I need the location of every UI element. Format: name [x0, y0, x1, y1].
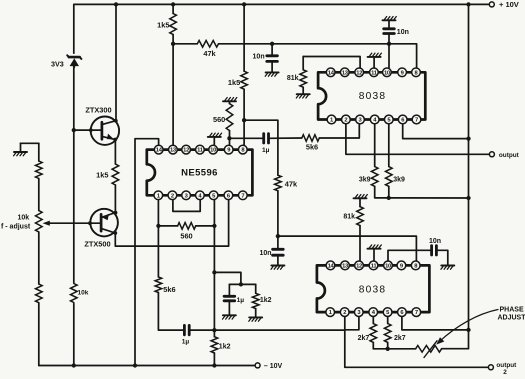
svg-text:1µ: 1µ: [262, 147, 270, 154]
node bottom-rail junction pin14 line: [133, 363, 137, 367]
potentiometer VR1 10k f-adjust: [36, 211, 43, 233]
svg-text:2: 2: [343, 310, 346, 316]
svg-text:47k: 47k: [203, 49, 216, 58]
resistor R6 1k5: [241, 71, 248, 89]
wire pin9 junction to 1u cap: [229, 137, 262, 139]
svg-text:ADJUST: ADJUST: [498, 314, 525, 321]
svg-text:10: 10: [210, 148, 216, 154]
svg-text:1k5: 1k5: [228, 78, 240, 87]
svg-text:560: 560: [213, 115, 225, 124]
node 1u/1k2 top junction: [239, 282, 243, 286]
label 10k R5: [78, 289, 89, 296]
wire junction to 47k vertical: [244, 120, 278, 175]
ground G4 below C1: [265, 72, 278, 76]
node NE5596 pin9 junction: [227, 136, 231, 140]
wire 2k7 junction to pot: [373, 348, 415, 350]
ground G2 above 560: [223, 98, 237, 102]
wire NE5596 pin1 down: [157, 200, 159, 277]
label 5k6 R11: [163, 285, 175, 294]
label PHASE ADJUST leader: [436, 310, 498, 345]
svg-text:81k: 81k: [343, 214, 355, 221]
resistor R19 2k7: [384, 317, 391, 349]
wire elbow to 1u/1k2 pair: [214, 272, 241, 284]
svg-text:ZTX500: ZTX500: [84, 239, 110, 248]
IC U2 8038 (top): [318, 68, 425, 124]
label f-adjust: [1, 224, 31, 231]
node top-rail junction at 1k5 (pin8) line: [242, 2, 246, 6]
label 1u C4: [182, 338, 190, 345]
ground G1 top-left: [14, 143, 27, 156]
svg-text:PHASE: PHASE: [500, 306, 524, 313]
resistor R8 560: [226, 101, 233, 145]
node 3k9/rail junction: [466, 196, 470, 200]
svg-text:10k: 10k: [78, 289, 89, 296]
svg-text:10n: 10n: [429, 238, 441, 245]
label 1u C2: [262, 147, 270, 154]
wire 8038-2 pin6 to rail: [402, 317, 469, 330]
label 47k R2: [203, 49, 216, 58]
label ZTX500: [84, 239, 110, 248]
label ZTX300: [85, 105, 111, 114]
label 560 R8: [213, 115, 225, 124]
node pin5/560 junction: [212, 224, 216, 228]
resistor R11 5k6: [155, 277, 162, 293]
wire ZTX500 collector to NE5596 pin6: [115, 200, 228, 246]
svg-text:47k: 47k: [285, 180, 298, 189]
label 81k R14: [287, 75, 299, 82]
svg-text:10: 10: [384, 70, 390, 76]
ground G6 above 8038-1 pin11: [368, 53, 382, 68]
label 10n C1: [253, 54, 265, 61]
wire 8038-1 pin2 to output: [346, 124, 489, 154]
svg-text:10k: 10k: [18, 215, 30, 222]
wire 8038-1 pin6 to rail: [403, 124, 469, 138]
node top-rail junction at ZTX300 collector line: [114, 2, 118, 6]
wire 8038-2 pin3 corner: [345, 317, 359, 330]
capacitor C2 1u: [264, 134, 269, 143]
node 47k/10n junction: [276, 234, 280, 238]
ground G10 below C3: [271, 266, 284, 270]
node 10n junction on 47k rail: [270, 42, 274, 46]
node pin6/rail junction: [466, 136, 470, 140]
label 10k (pot): [18, 215, 30, 222]
potentiometer VR2 phase adjust: [416, 341, 442, 358]
wire NE5596 pin14 to -10V rail: [135, 139, 159, 366]
wire junction to 47k: [173, 43, 197, 45]
ground G3 above NE5596 pin10: [208, 133, 222, 145]
node ZTX300 base junction: [72, 128, 76, 132]
resistor R2 47k: [197, 41, 218, 48]
label 2k7 R18: [358, 335, 370, 342]
wire wiper arrow to ZTX500 base: [43, 221, 90, 226]
resistor R13 1k2: [252, 284, 259, 316]
wire 47k to 10n junction: [277, 191, 279, 236]
svg-text:2: 2: [503, 369, 507, 374]
resistor R7 47k: [275, 175, 282, 191]
svg-text:1k2: 1k2: [260, 297, 272, 304]
node pin1/560 junction: [156, 224, 160, 228]
resistor R12 1k2: [211, 330, 218, 365]
ground G5 below 81k: [296, 94, 309, 98]
wire 47k rail to 8038-1 pin8: [219, 44, 417, 68]
node 2k7 junction: [386, 347, 390, 351]
resistor R4 (upper section of 10k pot): [36, 161, 43, 179]
capacitor C1 10n: [267, 44, 278, 72]
node 1k5/47k junction: [171, 42, 175, 46]
resistor R15 3k9: [371, 124, 388, 198]
wire 560 left lead: [158, 225, 177, 227]
wire 10n to ground: [438, 250, 448, 265]
svg-text:10n: 10n: [397, 29, 409, 36]
svg-text:– 10V: – 10V: [264, 363, 283, 370]
wire left vertical (zener / ZTX300 base / 10k): [73, 4, 75, 365]
svg-text:2: 2: [171, 193, 174, 199]
wire pair top bar: [229, 283, 255, 285]
svg-text:ZTX300: ZTX300: [85, 105, 111, 114]
svg-text:1k5: 1k5: [96, 171, 108, 180]
transistor Q2 ZTX500: [88, 209, 118, 237]
ground G12 below C5: [223, 315, 236, 319]
svg-text:81k: 81k: [287, 75, 299, 82]
svg-text:8038: 8038: [359, 91, 386, 102]
terminal +10V: [489, 0, 519, 9]
wire 10n node to 8038-2 pin8: [278, 236, 417, 261]
label 560 R10: [180, 232, 192, 241]
label 1k5 R1: [157, 20, 169, 29]
wire 1k5 to ZTX500 emitter: [114, 185, 116, 212]
svg-text:3k9: 3k9: [393, 176, 405, 183]
node top-rail junction at 1k5 (pin13) line: [171, 2, 175, 6]
svg-text:12: 12: [356, 264, 362, 270]
svg-text:NE5596: NE5596: [181, 167, 218, 178]
wire NE5596 pin5 down: [213, 200, 215, 330]
wire top rail down (1k5 pin8 line): [243, 4, 245, 71]
IC U3 8038 (bottom): [317, 261, 430, 316]
wire 1u to 5k6: [270, 137, 302, 139]
resistor R16 3k9: [386, 124, 393, 198]
wire collector line from top rail: [115, 4, 117, 121]
transistor Q1 ZTX300: [74, 117, 119, 145]
label 10n C3: [259, 250, 271, 257]
label 10n C6: [397, 29, 409, 36]
capacitor C7 10n: [432, 246, 437, 255]
ground G7 above C6: [383, 17, 397, 21]
svg-text:3k9: 3k9: [359, 176, 371, 183]
svg-text:1k2: 1k2: [219, 343, 231, 350]
label PHASE ADJUST: [498, 306, 525, 321]
node 1k5/47k-branch junction: [242, 118, 246, 122]
resistor R10 560: [178, 223, 196, 230]
wire 3k9 junction to rail: [389, 197, 469, 199]
wire 1u node to 8038-2 pin2: [214, 329, 344, 331]
wire -10V bottom supply rail: [39, 365, 255, 367]
resistor R14 81k: [300, 57, 360, 94]
resistor R1 1k5: [170, 14, 177, 35]
svg-text:1k5: 1k5: [157, 20, 169, 29]
terminal output 1: [489, 152, 519, 159]
resistor R17 81k: [357, 198, 364, 261]
svg-text:8038: 8038: [359, 285, 386, 296]
wire pot vertical line: [38, 143, 40, 365]
capacitor C4 1u: [184, 325, 189, 334]
resistor R18 2k7: [370, 317, 377, 349]
wire 8038-2 pin2 to output 2: [345, 317, 488, 368]
svg-text:12: 12: [356, 70, 362, 76]
svg-text:12: 12: [183, 148, 189, 154]
node bottom-rail junction 1k2 line: [212, 363, 216, 367]
label 1k2 R13: [260, 297, 272, 304]
ground G9 above 8038-2 pin11: [368, 245, 382, 261]
resistor R9 5k6: [302, 135, 320, 142]
resistor R5 10k (left line): [71, 284, 78, 303]
wire 5k6 to 8038-1 pin3: [319, 124, 359, 138]
label 81k R17: [343, 214, 355, 221]
ground G8 above 81k: [354, 195, 368, 199]
node bottom-rail junction left line: [72, 363, 76, 367]
wire top rail to 1k5: [172, 4, 174, 13]
label 47k R7: [285, 180, 298, 189]
label 2k7 R19: [394, 335, 406, 342]
label 3k9 R15: [359, 176, 371, 183]
svg-text:10n: 10n: [253, 54, 265, 61]
svg-text:5k6: 5k6: [163, 285, 175, 294]
node C6/pin8 wire junction: [387, 42, 391, 46]
svg-text:1µ: 1µ: [182, 338, 190, 345]
capacitor C5 1u: [224, 284, 235, 314]
op-amp U1 NE5596: [147, 145, 253, 199]
svg-text:+ 10V: + 10V: [499, 0, 519, 9]
ground G13 below R13: [249, 317, 262, 321]
capacitor C6 10n: [384, 20, 395, 68]
svg-text:7: 7: [415, 310, 418, 316]
node pin5 elbow junction: [212, 270, 216, 274]
node 3k9 junction: [387, 196, 391, 200]
label 3k9 R16: [393, 176, 405, 183]
svg-text:3V3: 3V3: [51, 59, 64, 68]
node pin6/rail junction 2: [466, 328, 470, 332]
node top-rail junction at right rail: [466, 2, 470, 6]
svg-text:output: output: [499, 152, 520, 159]
svg-text:2k7: 2k7: [394, 335, 406, 342]
label 1u C5: [237, 297, 245, 304]
wire 1u to 1k2 junction: [190, 329, 214, 331]
resistor R3 1k5 (between transistors): [112, 164, 119, 185]
wire NE5596 pin2-pin4 link: [173, 200, 200, 212]
label 5k6 R9: [306, 143, 318, 152]
label 1k5 R3: [96, 171, 108, 180]
label 1k5 R6: [228, 78, 240, 87]
svg-text:2k7: 2k7: [358, 335, 370, 342]
svg-text:560: 560: [180, 232, 192, 241]
svg-text:10n: 10n: [259, 250, 271, 257]
svg-text:7: 7: [415, 118, 418, 124]
ground G11 below C7: [441, 266, 454, 270]
svg-text:5k6: 5k6: [306, 143, 318, 152]
svg-text:2: 2: [344, 118, 347, 124]
wire 1k5 to NE5596 pin13: [172, 35, 174, 146]
svg-text:f - adjust: f - adjust: [1, 224, 31, 231]
wire 5k6 to 1u cap: [158, 293, 183, 331]
wire +10V top supply rail: [74, 3, 489, 5]
wire 1k5 to NE5596 pin8: [243, 89, 245, 145]
svg-text:10: 10: [385, 264, 391, 270]
svg-text:1µ: 1µ: [237, 297, 245, 304]
terminal -10V: [255, 363, 282, 370]
wire 8038-2 pin10 to 10n: [388, 250, 431, 261]
svg-text:7: 7: [241, 193, 244, 199]
label 1k2 R12: [219, 343, 231, 350]
resistor R4b (lower section of 10k pot): [36, 284, 43, 303]
wire right +10V vertical rail: [442, 4, 469, 348]
zener diode D1 3V3: [67, 55, 81, 67]
label 10n C7: [429, 238, 441, 245]
wire emitter to 1k5: [114, 140, 116, 165]
node 1u/1k2 junction: [212, 328, 216, 332]
capacitor C3 10n: [273, 236, 284, 265]
label 3V3: [51, 59, 64, 68]
terminal output 2: [488, 362, 517, 376]
wire 560 right lead: [196, 225, 215, 227]
wire pot top to ground corner: [21, 142, 39, 144]
